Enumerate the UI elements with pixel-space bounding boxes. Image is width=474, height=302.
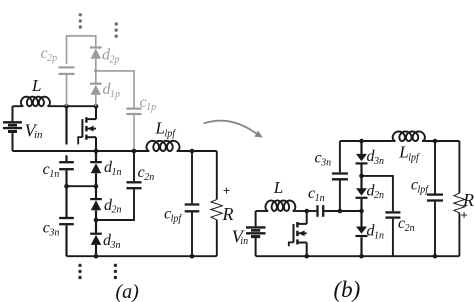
diode D2p (gray) xyxy=(90,46,102,48)
diode D2n (b) xyxy=(360,176,362,189)
bottom rail (b) xyxy=(256,255,460,257)
gray hat wire (a) xyxy=(67,36,96,64)
voltage source Vin (a) xyxy=(3,106,22,151)
MOSFET Q (a) xyxy=(78,106,96,151)
svg-text:(b): (b) xyxy=(334,277,361,302)
continuation dots below rail right (a) xyxy=(114,264,117,267)
svg-text:R: R xyxy=(222,204,234,224)
MOSFET body arrow (b) xyxy=(298,230,304,236)
inductor Llpf (b) xyxy=(393,132,425,142)
node at Clpf bottom (b) xyxy=(433,254,438,259)
node between D1n and D2n (a) xyxy=(94,184,99,189)
svg-text:L: L xyxy=(273,178,283,197)
capacitor C2p (gray) xyxy=(59,66,75,68)
node at MOSFET drain (a) xyxy=(94,104,99,109)
node at diode column top (b) xyxy=(359,139,364,144)
diode D3n (a) xyxy=(95,220,97,233)
continuation dots below rail left (a) xyxy=(78,264,81,267)
wire drain node to C1n (b) xyxy=(307,210,317,212)
node between D3n and D2n (b) xyxy=(359,174,364,179)
capacitor Clpf (a) xyxy=(191,151,193,203)
mid rail (a) xyxy=(13,150,147,152)
node between D2n and D1n (b) xyxy=(359,209,364,214)
node at D1n bottom on rail (b) xyxy=(359,254,364,259)
node at D3n bottom on rail (a) xyxy=(94,254,99,259)
MOSFET body arrow (a) xyxy=(87,126,93,132)
svg-text:L: L xyxy=(31,76,41,95)
capacitor C1p (gray) xyxy=(127,107,142,109)
node at MOSFET source (a) xyxy=(94,149,99,154)
node on top wire at c1n column (a) xyxy=(64,104,69,109)
MOSFET Q (b) xyxy=(289,211,307,256)
node at C1p junction (a) xyxy=(132,149,137,154)
svg-text:+: + xyxy=(223,183,230,198)
diode D3n (b) xyxy=(360,141,362,154)
svg-text:+: + xyxy=(460,208,467,223)
node at C3n junction (b) xyxy=(338,209,343,214)
diode D1n (b) xyxy=(360,211,362,227)
node at Clpf bottom (a) xyxy=(190,254,195,259)
bottom rail (a) xyxy=(67,255,217,257)
node at C1n bottom (a) xyxy=(64,184,69,189)
inductor Llpf (a) xyxy=(147,141,180,151)
c1n column upper lead with crossover gap (a) xyxy=(65,106,67,144)
node between D2n and D3n (a) xyxy=(94,218,99,223)
capacitor C2n branch (b) xyxy=(362,176,393,211)
node at MOSFET drain (b) xyxy=(304,209,309,214)
node at Clpf top (a) xyxy=(190,149,195,154)
capacitor C3n branch (b) xyxy=(339,141,341,172)
capacitor Clpf (b) xyxy=(434,141,436,194)
capacitor C1n (b) horizontal xyxy=(316,205,318,217)
top wire (b) xyxy=(340,140,393,142)
voltage source Vin (b) xyxy=(246,211,266,256)
diode D1p (gray) xyxy=(90,83,102,85)
capacitor C2n branch (a) xyxy=(133,151,135,181)
resistor R (a) xyxy=(211,151,222,256)
capacitor C3n (a) xyxy=(65,186,67,217)
inductor L (a) xyxy=(13,105,21,107)
resistor R (b) xyxy=(454,141,465,256)
gray node between D2p and D1p xyxy=(94,69,98,73)
continuation dots above hat right (gray) xyxy=(115,22,118,25)
continuation dots above hat left (gray) xyxy=(79,13,82,16)
gray branch wire to C1p xyxy=(96,71,134,108)
capacitor C1n (a) xyxy=(59,161,74,163)
diode D1n (a) xyxy=(95,151,97,161)
node at Clpf top (b) xyxy=(433,139,438,144)
node at MOSFET source on rail (b) xyxy=(304,254,309,259)
transform arrow between circuits xyxy=(204,121,257,134)
diode D2n (a) xyxy=(95,186,97,198)
inductor L (b) xyxy=(256,210,266,212)
stub C1n to diode column (a) xyxy=(67,185,97,187)
svg-text:(a): (a) xyxy=(116,281,140,302)
